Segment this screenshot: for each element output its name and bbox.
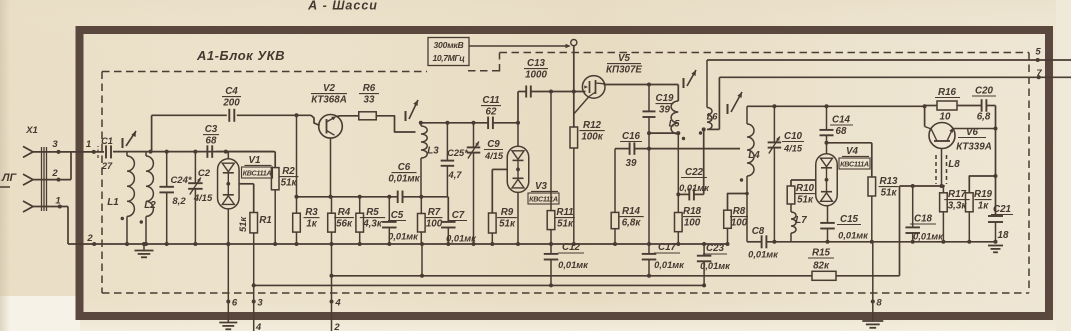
svg-text:L7: L7 bbox=[795, 215, 807, 226]
svg-text:C19: C19 bbox=[656, 93, 675, 104]
wire C22 row bbox=[678, 193, 689, 195]
svg-text:R19: R19 bbox=[974, 189, 993, 200]
svg-text:51к: 51к bbox=[881, 188, 898, 199]
svg-text:0,01мк: 0,01мк bbox=[558, 260, 589, 270]
svg-text:1: 1 bbox=[86, 139, 91, 150]
tuning arrow of L3 bbox=[409, 100, 418, 119]
svg-text:R12: R12 bbox=[583, 120, 602, 131]
right-hand bus with C8 bbox=[747, 241, 761, 243]
svg-text:1к: 1к bbox=[306, 219, 317, 230]
svg-text:R8: R8 bbox=[733, 206, 746, 217]
tuning arrow of L1 bbox=[126, 131, 136, 146]
svg-text:X1: X1 bbox=[25, 125, 38, 136]
polarity dot of L4 bbox=[740, 178, 743, 181]
wire base bus bbox=[900, 185, 944, 187]
svg-text:C7: C7 bbox=[452, 210, 465, 221]
svg-text:6,8: 6,8 bbox=[977, 112, 991, 123]
svg-text:82к: 82к bbox=[813, 261, 830, 272]
svg-text:100к: 100к bbox=[581, 132, 603, 143]
svg-text:КВС111А: КВС111А bbox=[529, 195, 558, 204]
svg-text:6,8к: 6,8к bbox=[622, 218, 642, 229]
svg-text:51к: 51к bbox=[281, 178, 298, 189]
svg-text:33: 33 bbox=[364, 95, 375, 106]
svg-text:3: 3 bbox=[52, 139, 58, 150]
wire R19 top to C20 column bbox=[969, 176, 995, 193]
varactor V3 КВС111А bbox=[517, 123, 519, 147]
pin 3 bbox=[252, 300, 256, 304]
svg-text:ЛГ: ЛГ bbox=[1, 172, 18, 184]
svg-text:C10: C10 bbox=[784, 131, 803, 142]
svg-text:R13: R13 bbox=[880, 176, 899, 187]
svg-text:R16: R16 bbox=[938, 87, 957, 98]
lower rail 3 (tuning bus) bbox=[254, 284, 706, 286]
wire C16 row to L4 tap bbox=[615, 148, 629, 150]
svg-text:51к: 51к bbox=[797, 195, 814, 206]
svg-text:51к: 51к bbox=[499, 219, 516, 230]
wire V6 base through L8 bbox=[941, 149, 943, 187]
wire V4 tap to R10 bbox=[791, 179, 816, 181]
svg-text:C22: C22 bbox=[685, 167, 704, 178]
svg-text:КВС111А: КВС111А bbox=[840, 160, 869, 169]
svg-text:5: 5 bbox=[1035, 47, 1041, 58]
dashed boundary of A1 block bbox=[102, 71, 427, 73]
svg-text:1к: 1к bbox=[978, 201, 989, 212]
wire tank bottom down across C16 row to ground rail bbox=[648, 133, 650, 244]
svg-text:0,01мк: 0,01мк bbox=[388, 174, 420, 185]
svg-text:200: 200 bbox=[222, 98, 240, 109]
svg-text:C16: C16 bbox=[622, 131, 641, 142]
wire V2 collector to R6 bbox=[336, 115, 359, 118]
pin 6 with ground below block bbox=[227, 244, 229, 316]
svg-text:КТ368А: КТ368А bbox=[311, 95, 347, 106]
wire R12 to ground rail bbox=[573, 148, 575, 244]
svg-text:1000: 1000 bbox=[525, 70, 547, 81]
varactor V4 КВС111А bbox=[816, 154, 838, 206]
wire R1 to pin 3 tuning line bbox=[253, 233, 255, 302]
svg-text:3: 3 bbox=[257, 298, 263, 309]
svg-text:4: 4 bbox=[255, 322, 262, 331]
svg-text:4,3к: 4,3к bbox=[362, 219, 383, 230]
svg-text:62: 62 bbox=[486, 107, 497, 118]
svg-text:39: 39 bbox=[626, 158, 637, 169]
svg-text:C25*: C25* bbox=[447, 148, 468, 158]
wire R13 to supply rail bbox=[871, 196, 873, 242]
svg-text:R18: R18 bbox=[683, 206, 702, 217]
wire tank to gate riser bbox=[517, 92, 519, 123]
svg-text:R5: R5 bbox=[366, 207, 379, 218]
svg-text:51к: 51к bbox=[238, 216, 248, 232]
wire V6 collector riser bbox=[924, 106, 926, 126]
svg-text:C13: C13 bbox=[527, 58, 546, 69]
wire V2 emitter down bbox=[330, 138, 332, 197]
wire L6/C22 riser bbox=[703, 129, 705, 194]
svg-text:R14: R14 bbox=[622, 206, 641, 217]
wire R8 tap to L4 bbox=[728, 194, 748, 211]
svg-text:56к: 56к bbox=[336, 219, 353, 230]
svg-text:R2: R2 bbox=[282, 166, 295, 177]
polarity dot of L5 bbox=[682, 137, 685, 140]
svg-text:4,7: 4,7 bbox=[448, 170, 463, 180]
svg-text:100: 100 bbox=[426, 219, 443, 230]
svg-text:R3: R3 bbox=[305, 207, 318, 218]
wire test point down to gate node and R12 bbox=[573, 46, 575, 127]
oscillator tank top wire bbox=[421, 122, 488, 124]
svg-text:C9: C9 bbox=[487, 139, 500, 150]
svg-text:C21: C21 bbox=[993, 204, 1011, 215]
svg-text:КП307Е: КП307Е bbox=[606, 65, 642, 76]
wire C3 to R2 bbox=[216, 151, 275, 153]
tuning arrow of L6 bbox=[687, 70, 696, 86]
svg-text:300мкВ: 300мкВ bbox=[433, 40, 463, 50]
svg-text:R11: R11 bbox=[556, 207, 573, 218]
svg-text:100: 100 bbox=[731, 218, 748, 229]
svg-text:R9: R9 bbox=[501, 207, 514, 218]
wire C1 to input tank top bbox=[113, 151, 273, 153]
svg-text:R7: R7 bbox=[428, 207, 441, 218]
svg-text:39: 39 bbox=[659, 105, 670, 116]
block outer frame A1 bbox=[80, 30, 1050, 316]
ground rail (left section) bbox=[94, 243, 727, 245]
svg-text:R6: R6 bbox=[363, 83, 376, 94]
svg-text:R1: R1 bbox=[259, 215, 272, 226]
wire L6 bottom to pin 7 riser bbox=[707, 128, 719, 130]
wire L5 bottom riser to C22/R18 node bbox=[677, 133, 679, 194]
wire joining pin2 to pin3 line bbox=[70, 152, 72, 180]
tuning arrow of L4 bbox=[731, 92, 742, 112]
wire V5 drain to L5 tank bbox=[604, 84, 679, 86]
svg-text:C8: C8 bbox=[752, 226, 765, 237]
svg-text:V2: V2 bbox=[323, 83, 336, 94]
svg-text:2: 2 bbox=[51, 168, 58, 179]
svg-text:КВС111А: КВС111А bbox=[243, 169, 272, 178]
wire L2 top to C4 feed riser bbox=[151, 151, 152, 153]
svg-text:C6: C6 bbox=[398, 162, 411, 173]
svg-text:C1: C1 bbox=[101, 136, 113, 146]
wire V2 emitter bus bbox=[297, 196, 398, 198]
svg-text:2: 2 bbox=[86, 233, 93, 244]
svg-text:0,01мк: 0,01мк bbox=[388, 232, 419, 242]
pin 8 with ground below block bbox=[872, 242, 874, 316]
svg-text:18: 18 bbox=[998, 230, 1009, 241]
svg-text:27: 27 bbox=[101, 161, 113, 171]
svg-text:0,01мк: 0,01мк bbox=[838, 231, 869, 241]
svg-text:L8: L8 bbox=[948, 159, 960, 170]
ground at C21 bbox=[988, 245, 1003, 247]
wire V3 bottom to ground rail bbox=[517, 192, 519, 244]
svg-text:КТ339А: КТ339А bbox=[956, 142, 992, 153]
svg-text:C11: C11 bbox=[482, 95, 499, 106]
wire C4 feed from tank to V2 base bbox=[151, 115, 153, 151]
svg-text:8,2: 8,2 bbox=[172, 196, 186, 207]
polarity dot of L6 bbox=[699, 131, 702, 134]
wire V1 tap to R1 bbox=[239, 183, 254, 185]
chassis ground on rail bbox=[143, 244, 145, 251]
wire V5 source to R12 bbox=[574, 97, 589, 114]
svg-text:100: 100 bbox=[684, 218, 701, 229]
wire V1 bottom to ground rail bbox=[227, 209, 229, 244]
svg-text:R4: R4 bbox=[338, 207, 351, 218]
svg-text:C15: C15 bbox=[840, 214, 859, 225]
svg-text:2: 2 bbox=[333, 322, 340, 331]
wire X1 pin1 down to block pin 2 bbox=[67, 207, 69, 245]
test point terminal circle bbox=[571, 40, 577, 46]
svg-text:А - Шасси: А - Шасси bbox=[307, 0, 378, 13]
wire base bus down to R15 bbox=[899, 186, 901, 276]
svg-text:C4: C4 bbox=[225, 86, 238, 97]
svg-text:L6: L6 bbox=[707, 112, 719, 122]
pin 4 bbox=[331, 244, 333, 331]
svg-text:V3: V3 bbox=[535, 181, 548, 192]
test point arrow line bbox=[469, 45, 570, 47]
svg-text:R17: R17 bbox=[948, 189, 967, 200]
svg-text:0,01мк: 0,01мк bbox=[654, 260, 685, 270]
wire C4 to V2 base node bbox=[237, 114, 311, 116]
svg-text:L1: L1 bbox=[107, 197, 118, 208]
svg-text:V5: V5 bbox=[618, 53, 631, 64]
svg-text:V1: V1 bbox=[249, 155, 261, 166]
wire base node down to R3 bbox=[296, 115, 298, 213]
svg-text:4: 4 bbox=[334, 298, 341, 309]
wire R6 to oscillator tank tap bbox=[377, 116, 416, 132]
svg-text:0,01мк: 0,01мк bbox=[748, 250, 779, 260]
svg-text:10,7МГц: 10,7МГц bbox=[433, 53, 466, 63]
wire V4 top to R13 bbox=[827, 142, 872, 144]
varactor V1 КВС111А bbox=[227, 152, 229, 159]
svg-text:C14: C14 bbox=[832, 115, 851, 126]
wire R7 bottom / strap to lower rail bbox=[420, 232, 422, 244]
svg-text:0,01мк: 0,01мк bbox=[446, 234, 477, 244]
gate wire to V5 bbox=[518, 91, 526, 93]
svg-text:4/15: 4/15 bbox=[783, 144, 803, 154]
svg-text:R10: R10 bbox=[796, 183, 815, 194]
svg-text:8: 8 bbox=[876, 298, 882, 309]
svg-text:C20: C20 bbox=[975, 86, 994, 97]
wire C19/L5 bottom bbox=[649, 132, 678, 134]
wire V3 tap to R9 bbox=[492, 168, 507, 170]
wire R2 to ground rail bbox=[274, 190, 276, 244]
test point annotation box 300мкВ 10,7МГц bbox=[428, 38, 469, 66]
wire V6 emitter to C20 column bbox=[953, 128, 996, 130]
svg-text:68: 68 bbox=[836, 126, 847, 137]
lower rail 2 bbox=[332, 275, 813, 277]
svg-text:V4: V4 bbox=[846, 146, 859, 157]
svg-text:4/15: 4/15 bbox=[484, 151, 504, 161]
svg-text:10: 10 bbox=[940, 112, 951, 123]
svg-text:6: 6 bbox=[232, 298, 238, 309]
svg-text:R15: R15 bbox=[812, 248, 831, 259]
svg-text:68: 68 bbox=[206, 136, 217, 147]
cable shield lines of X1 bbox=[41, 147, 43, 211]
svg-text:C2: C2 bbox=[198, 168, 211, 179]
svg-text:А1-Блок УКВ: А1-Блок УКВ bbox=[196, 48, 285, 63]
svg-text:51к: 51к bbox=[557, 219, 574, 230]
svg-text:3,3к: 3,3к bbox=[948, 201, 968, 212]
svg-text:C24*: C24* bbox=[170, 175, 192, 186]
wire C20 down to C21 bbox=[995, 106, 997, 217]
svg-text:C5: C5 bbox=[391, 210, 404, 221]
svg-text:C18: C18 bbox=[914, 214, 933, 225]
wire L4 tank top bbox=[747, 105, 925, 107]
svg-text:L3: L3 bbox=[427, 146, 439, 157]
svg-text:C3: C3 bbox=[205, 124, 218, 135]
